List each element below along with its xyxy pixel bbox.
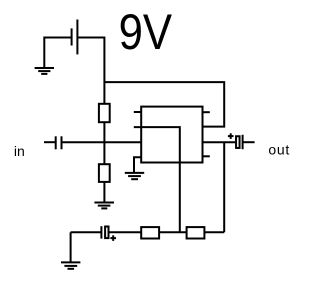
capacitor C3 (bypass, polarized) bbox=[100, 226, 102, 238]
resistor R3 bbox=[141, 227, 159, 238]
resistor R2 bbox=[99, 164, 110, 182]
IC ground pin 4 to ground bbox=[134, 157, 141, 172]
capacitor C1 (input coupling) bbox=[56, 136, 62, 149]
wire battery negative to ground bbox=[44, 38, 71, 69]
svg-text:out: out bbox=[268, 142, 290, 158]
ground G4 (bottom) bbox=[70, 232, 72, 262]
wire ground to C3 bbox=[71, 231, 102, 233]
wire battery positive to supply node bbox=[77, 38, 104, 104]
wire output down to feedback network bbox=[223, 142, 225, 232]
wire C3 to R3 bbox=[110, 231, 142, 233]
op-amp IC U1 body bbox=[141, 107, 202, 163]
pin 5 stub (right bottom) bbox=[203, 155, 210, 157]
ground G1 (battery) bbox=[35, 68, 54, 74]
svg-text:in: in bbox=[14, 143, 25, 159]
wire R4 to output drop bbox=[204, 231, 224, 233]
wire input lead bbox=[44, 141, 56, 143]
wire C2 to out bbox=[243, 141, 255, 143]
wire supply branch to IC power pin bbox=[104, 82, 224, 127]
wire R2 to ground bbox=[103, 182, 105, 203]
capacitor C2 (output, polarized) bbox=[236, 136, 240, 148]
wire R1 to R2 through input node bbox=[103, 122, 105, 164]
battery B1 negative (short) plate bbox=[71, 28, 73, 45]
ground G2 (R2) bbox=[94, 203, 114, 209]
svg-text:9V: 9V bbox=[119, 4, 173, 60]
wire pin 2 to bottom network bbox=[134, 127, 180, 232]
resistor R1 bbox=[99, 104, 110, 122]
plus mark C3 bbox=[110, 235, 116, 241]
pin 8 stub (right top) bbox=[203, 111, 210, 113]
wire IC output pin to C2 bbox=[203, 141, 236, 143]
wire R3 to R4 bbox=[159, 231, 187, 233]
wire C1 to IC input pin 3 bbox=[62, 141, 142, 143]
plus mark C2 bbox=[228, 133, 234, 139]
resistor R4 bbox=[187, 227, 205, 238]
battery B1 positive (long) plate bbox=[76, 20, 78, 55]
pin 1 stub (left top) bbox=[134, 111, 141, 113]
ground G3 (IC) bbox=[125, 173, 144, 179]
